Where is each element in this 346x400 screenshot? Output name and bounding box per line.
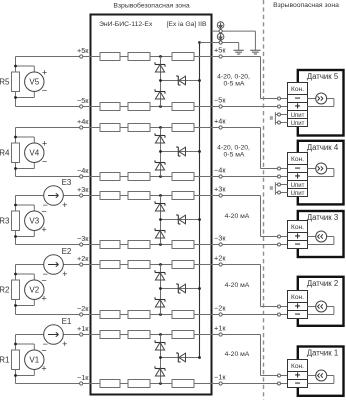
svg-text:Uпит: Uпит (291, 121, 305, 127)
svg-text:E1: E1 (62, 317, 72, 326)
svg-text:+: + (295, 172, 301, 183)
svg-text:+5к: +5к (214, 46, 226, 55)
svg-text:R3: R3 (0, 216, 10, 225)
svg-text:+: + (42, 139, 47, 149)
svg-text:0-5 мА: 0-5 мА (224, 152, 245, 159)
svg-text:+: + (41, 293, 46, 303)
svg-text:Датчик 4: Датчик 4 (307, 143, 339, 152)
svg-text:V5: V5 (29, 78, 39, 87)
svg-text:R2: R2 (0, 285, 10, 294)
svg-text:−5к: −5к (214, 96, 226, 105)
svg-text:R4: R4 (0, 148, 10, 157)
svg-text:−2к: −2к (77, 304, 89, 313)
svg-text:R5: R5 (0, 77, 10, 86)
svg-text:−: − (42, 85, 47, 95)
svg-text:+: + (295, 102, 301, 113)
svg-text:V4: V4 (29, 149, 39, 158)
svg-text:Кон.: Кон. (291, 224, 304, 231)
svg-text:Взрывобезопасная зона: Взрывобезопасная зона (113, 2, 189, 10)
svg-text:+: + (62, 339, 67, 349)
svg-text:E3: E3 (62, 178, 72, 187)
svg-text:−: − (43, 339, 48, 349)
svg-text:+1к: +1к (214, 324, 226, 333)
svg-text:Датчик 3: Датчик 3 (307, 213, 338, 222)
svg-text:−: − (295, 379, 301, 390)
svg-text:4-20 мА: 4-20 мА (225, 351, 250, 358)
svg-text:−: − (295, 240, 301, 251)
svg-text:4-20, 0-20,: 4-20, 0-20, (217, 74, 250, 81)
svg-text:−4к: −4к (214, 166, 226, 175)
svg-text:0-5 мА: 0-5 мА (224, 81, 245, 88)
svg-text:−2к: −2к (214, 304, 226, 313)
svg-text:−: − (42, 156, 47, 166)
svg-text:+4к: +4к (77, 117, 89, 126)
svg-text:−5к: −5к (77, 96, 89, 105)
svg-text:+5к: +5к (77, 46, 89, 55)
svg-text:+: + (62, 269, 67, 279)
svg-text:V2: V2 (29, 286, 39, 295)
svg-text:Датчик 5: Датчик 5 (307, 72, 339, 81)
svg-text:[Ex ia Ga] IIB: [Ex ia Ga] IIB (166, 21, 207, 28)
svg-text:+: + (41, 363, 46, 373)
svg-text:+1к: +1к (77, 324, 89, 333)
svg-text:V3: V3 (29, 217, 39, 226)
svg-text:−1к: −1к (214, 373, 226, 382)
svg-text:Взрывоопасная зона: Взрывоопасная зона (273, 2, 339, 9)
svg-text:Кон.: Кон. (291, 86, 304, 93)
svg-text:−: − (43, 200, 48, 210)
svg-text:E2: E2 (62, 247, 72, 256)
svg-text:−4к: −4к (77, 166, 89, 175)
svg-text:R1: R1 (0, 355, 10, 364)
svg-text:Uпит: Uпит (291, 113, 305, 119)
svg-text:V1: V1 (29, 356, 39, 365)
svg-text:Датчик 1: Датчик 1 (307, 349, 338, 358)
svg-text:Uпит: Uпит (291, 183, 305, 189)
svg-text:−: − (295, 310, 301, 321)
svg-text:Кон.: Кон. (291, 294, 304, 301)
svg-text:Датчик 2: Датчик 2 (307, 279, 338, 288)
svg-text:Кон.: Кон. (291, 363, 304, 370)
svg-text:+4к: +4к (214, 117, 226, 126)
svg-text:−: − (43, 269, 48, 279)
svg-text:4-20 мА: 4-20 мА (225, 282, 250, 289)
svg-text:+: + (62, 200, 67, 210)
svg-text:Uпит: Uпит (291, 191, 305, 197)
svg-text:+3к: +3к (77, 185, 89, 194)
svg-text:4-20, 0-20,: 4-20, 0-20, (217, 145, 250, 152)
svg-text:4-20 мА: 4-20 мА (225, 213, 250, 220)
svg-text:ЭнИ-БИС-112-Ex: ЭнИ-БИС-112-Ex (99, 21, 153, 28)
svg-text:+: + (41, 224, 46, 234)
svg-text:+2к: +2к (214, 254, 226, 263)
svg-text:−3к: −3к (77, 234, 89, 243)
svg-text:+2к: +2к (77, 254, 89, 263)
svg-text:+3к: +3к (214, 185, 226, 194)
svg-text:Кон.: Кон. (291, 156, 304, 163)
svg-text:−1к: −1к (77, 373, 89, 382)
svg-text:+: + (42, 68, 47, 78)
svg-text:−3к: −3к (214, 234, 226, 243)
